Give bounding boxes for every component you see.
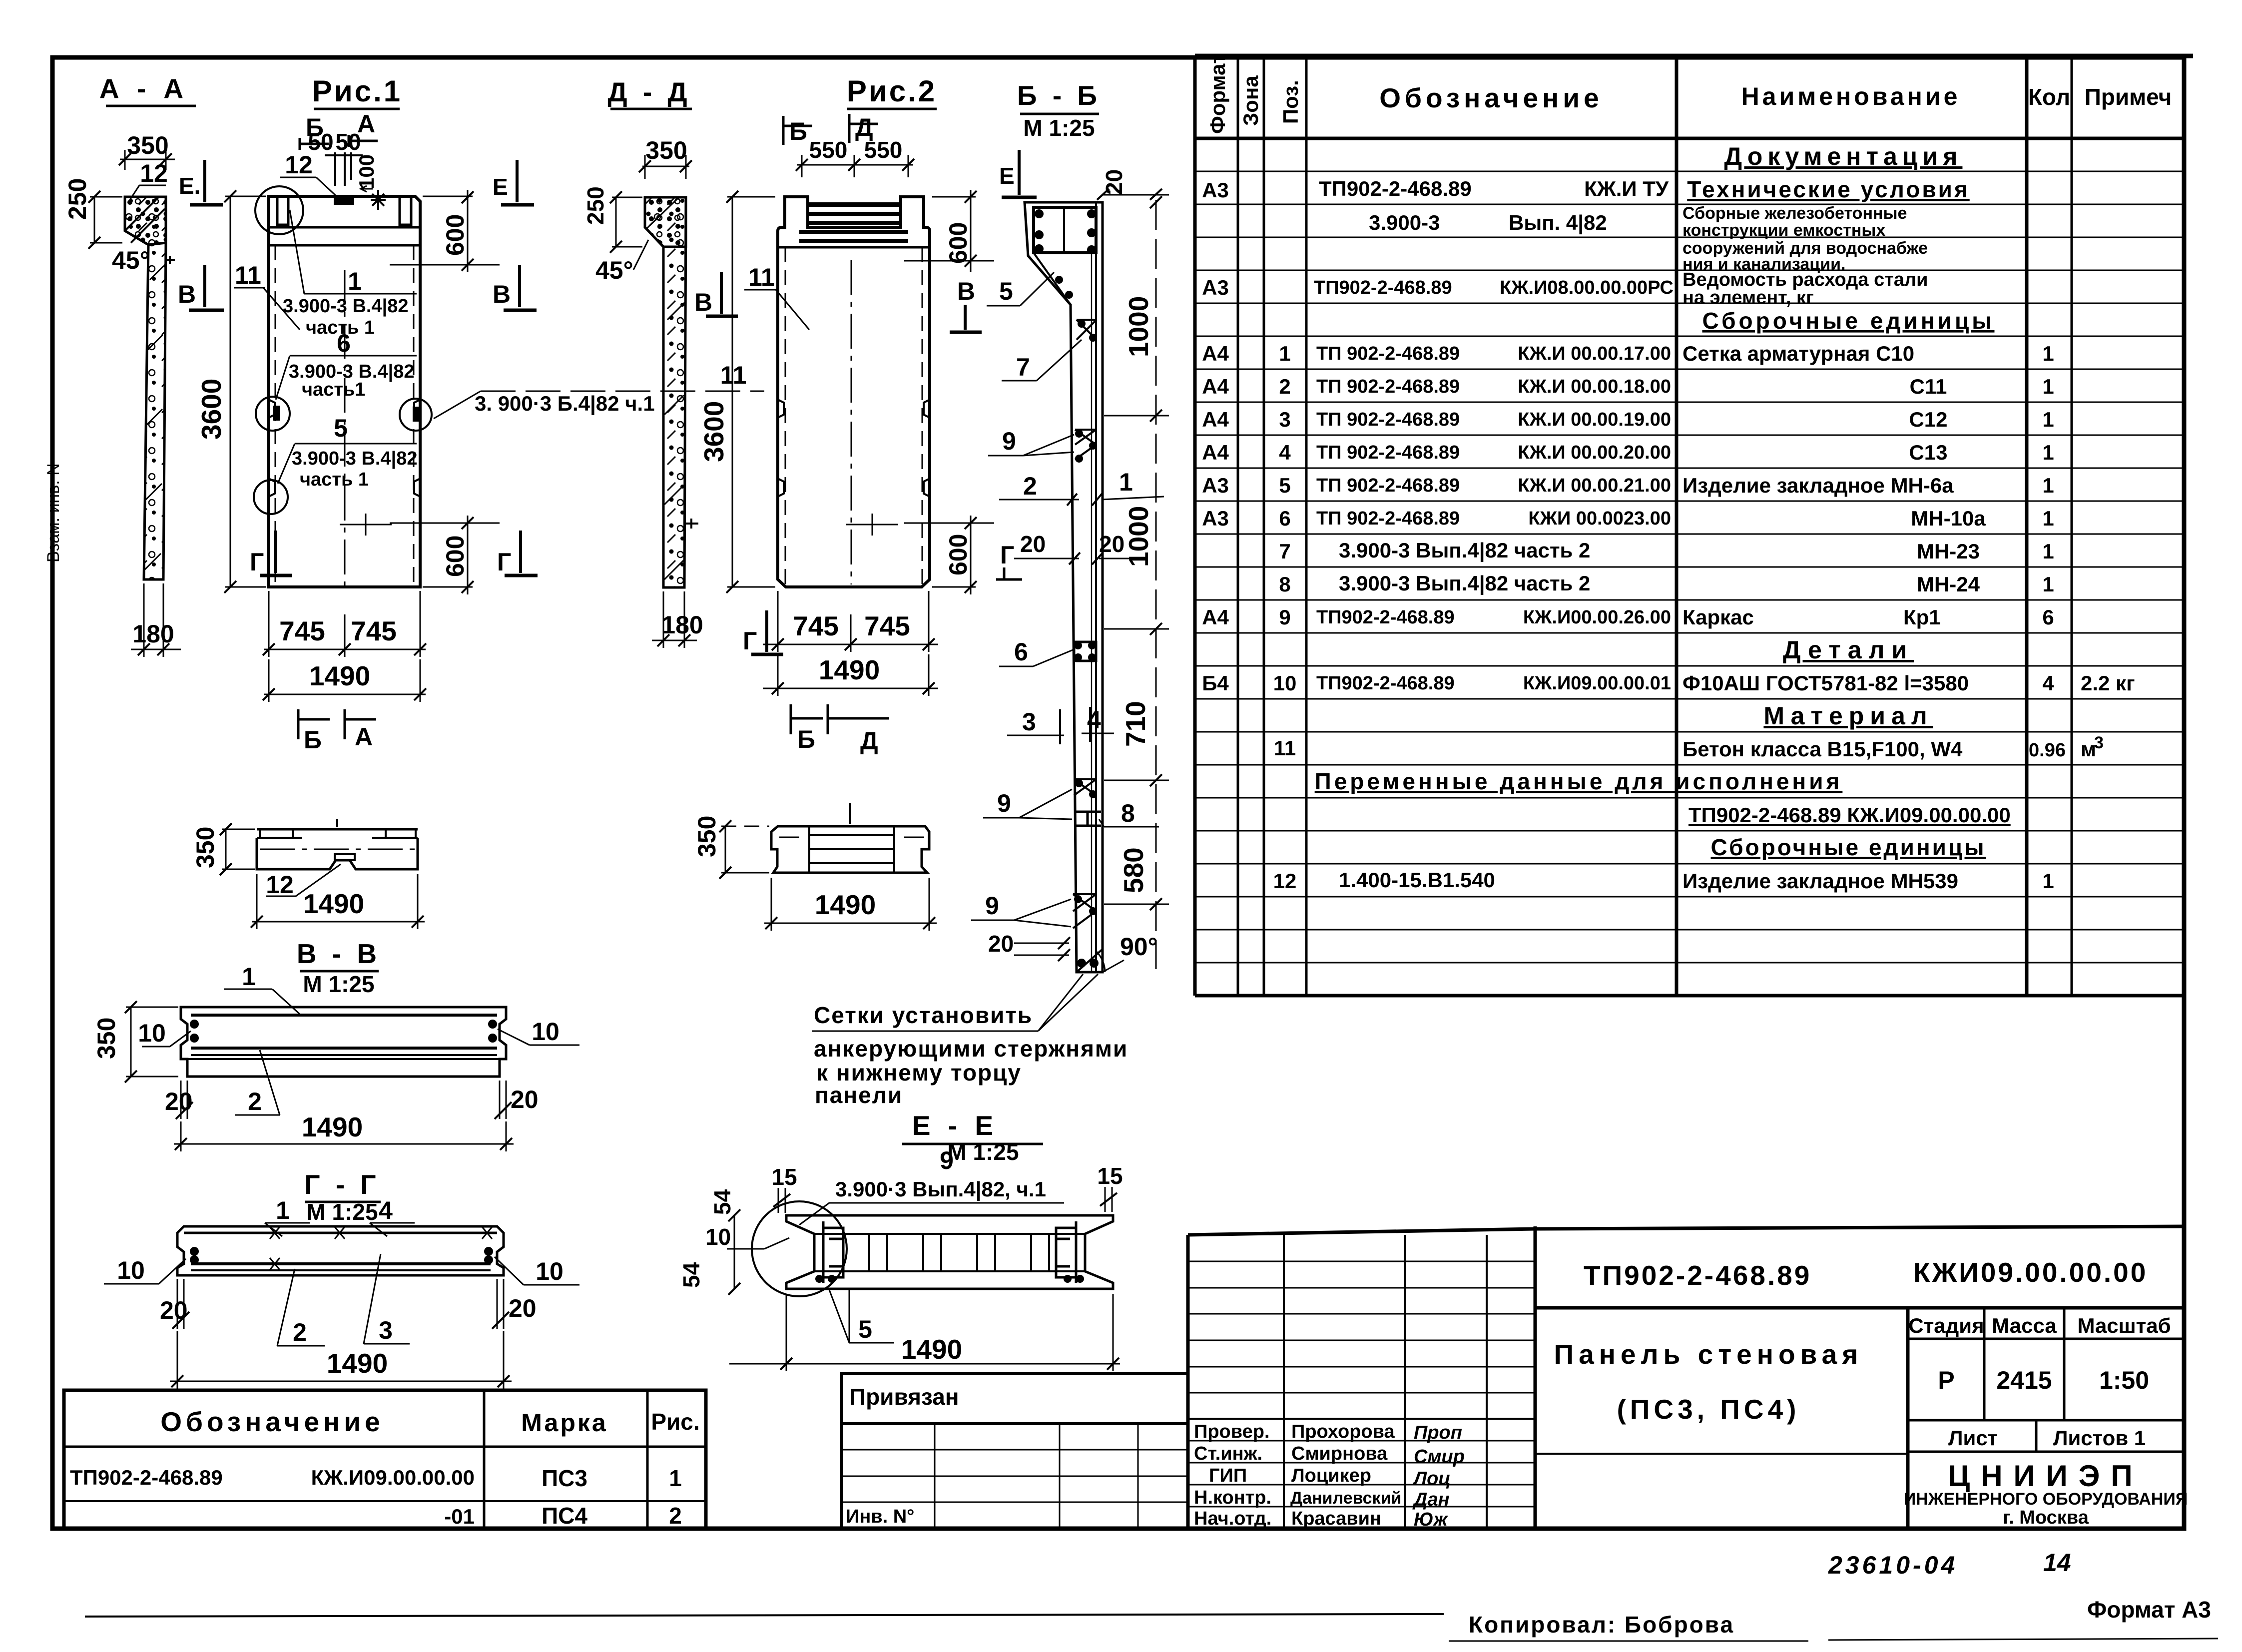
E-E left dims 54/10/54	[678, 1189, 789, 1295]
E-E label 5	[829, 1290, 894, 1343]
svg-text:1: 1	[2042, 572, 2054, 596]
svg-text:Д: Д	[860, 727, 878, 755]
B-B label 5	[987, 272, 1054, 306]
svg-text:1490: 1490	[309, 660, 370, 691]
svg-text:(ПС3, ПС4): (ПС3, ПС4)	[1617, 1394, 1800, 1425]
svg-text:М 1:25: М 1:25	[306, 1199, 378, 1225]
svg-text:3.900-3 В.4|82: 3.900-3 В.4|82	[283, 296, 408, 317]
section marker G (right of fig.1)	[497, 531, 538, 576]
section marker G (left of fig.2 bottom)	[743, 610, 783, 655]
fig.1 panel outline	[269, 190, 420, 587]
svg-text:КЖИ09.00.00.00: КЖИ09.00.00.00	[1913, 1257, 2148, 1288]
svg-text:1: 1	[348, 267, 362, 295]
B-B labels 3 and 4	[1007, 706, 1114, 744]
svg-text:Проп: Проп	[1414, 1422, 1462, 1443]
svg-text:600: 600	[944, 222, 972, 264]
svg-text:6: 6	[337, 329, 351, 357]
svg-text:Переменные данные для исполнен: Переменные данные для исполнения	[1315, 768, 1843, 794]
svg-text:8: 8	[1121, 799, 1135, 827]
svg-text:часть 1: часть 1	[300, 469, 369, 490]
fig.2 title	[847, 74, 937, 109]
embed 6	[1074, 642, 1096, 661]
svg-text:ТП 902-2-468.89: ТП 902-2-468.89	[1316, 508, 1460, 529]
svg-text:1490: 1490	[901, 1334, 962, 1365]
svg-text:250: 250	[582, 186, 608, 225]
svg-text:2: 2	[293, 1318, 307, 1346]
svg-text:ТП902-2-468.89: ТП902-2-468.89	[1316, 607, 1455, 628]
D-D dim 350	[639, 136, 692, 179]
rebar cluster group 9a	[1075, 430, 1096, 460]
svg-text:580: 580	[1118, 847, 1149, 893]
section marker G (left)	[250, 531, 292, 576]
svg-text:ТП 902-2-468.89: ТП 902-2-468.89	[1316, 442, 1460, 463]
svg-text:Лист: Лист	[1948, 1426, 1998, 1450]
rebar cluster group 7	[1077, 320, 1097, 340]
svg-text:3. 900·3 Б.4|82 ч.1: 3. 900·3 Б.4|82 ч.1	[475, 392, 655, 416]
svg-text:20: 20	[1020, 531, 1046, 557]
svg-text:Обозначение: Обозначение	[1379, 82, 1603, 113]
note text under B-B	[812, 974, 1128, 1108]
fig.1 detail circles	[254, 186, 432, 514]
plan1 label 12	[266, 864, 341, 899]
fig.1 inner dashed lines	[275, 245, 414, 587]
svg-text:ТП 902-2-468.89: ТП 902-2-468.89	[1316, 475, 1460, 496]
svg-text:10: 10	[532, 1018, 560, 1046]
svg-text:МН-10а: МН-10а	[1911, 507, 1986, 530]
fig.2 centerline tick	[846, 514, 898, 536]
svg-text:350: 350	[92, 1018, 120, 1059]
D-D wall cut body	[645, 197, 686, 587]
svg-text:Сборочные единицы: Сборочные единицы	[1702, 308, 1995, 334]
svg-text:3600: 3600	[196, 379, 227, 440]
svg-text:1490: 1490	[303, 888, 364, 919]
svg-text:Провер.: Провер.	[1194, 1421, 1270, 1442]
fig.2 top markers B and D	[783, 113, 878, 145]
svg-text:9: 9	[1002, 427, 1016, 455]
svg-text:ГИП: ГИП	[1209, 1465, 1247, 1486]
svg-text:Данилевский: Данилевский	[1290, 1489, 1401, 1508]
svg-text:9: 9	[940, 1146, 954, 1174]
svg-text:Нач.отд.: Нач.отд.	[1194, 1508, 1271, 1529]
svg-text:3.900·3 Вып.4|82, ч.1: 3.900·3 Вып.4|82, ч.1	[835, 1177, 1046, 1201]
B-B labels 2 and 1	[999, 468, 1164, 506]
svg-text:745: 745	[793, 610, 839, 641]
svg-text:Г - Г: Г - Г	[304, 1169, 380, 1200]
svg-text:ТП 902-2-468.89: ТП 902-2-468.89	[1316, 376, 1460, 397]
svg-text:Е: Е	[493, 174, 508, 200]
svg-text:А4: А4	[1202, 342, 1229, 365]
bottom scan line	[85, 1614, 1444, 1617]
svg-text:ТП902-2-468.89: ТП902-2-468.89	[1316, 673, 1455, 694]
big specification table grid	[1195, 56, 2193, 996]
fig.1 dim 3600 (left)	[196, 190, 266, 593]
svg-text:600: 600	[441, 214, 469, 256]
svg-text:9: 9	[985, 892, 999, 920]
E-E dim 1490	[729, 1294, 1120, 1371]
svg-text:В: В	[493, 280, 511, 308]
svg-text:12: 12	[140, 159, 168, 187]
svg-text:-01: -01	[444, 1505, 475, 1528]
G-G dims 20	[160, 1279, 537, 1329]
B-B dim 20 top right	[1097, 169, 1169, 200]
fig.2 dim 600 bottom right	[904, 516, 994, 594]
svg-text:М 1:25: М 1:25	[947, 1139, 1019, 1165]
svg-text:1: 1	[669, 1465, 682, 1491]
fig.1 centerline tick	[340, 514, 392, 536]
svg-text:Взам. инв. N: Взам. инв. N	[44, 463, 63, 562]
svg-text:Вып. 4|82: Вып. 4|82	[1509, 211, 1607, 235]
svg-text:12: 12	[1273, 869, 1297, 893]
svg-text:Детали: Детали	[1783, 636, 1914, 664]
B-B label 6	[999, 638, 1074, 666]
svg-text:Дан: Дан	[1412, 1489, 1450, 1510]
plan2 dim 1490	[764, 878, 937, 931]
fig.1 dim 50 50 at top	[308, 129, 378, 192]
svg-text:Сетки установить: Сетки установить	[814, 1002, 1033, 1028]
svg-text:2415: 2415	[1996, 1366, 2052, 1394]
G-G dim 1490	[170, 1331, 512, 1389]
fig.2 dim 550 550	[796, 137, 914, 177]
svg-text:Е - Е: Е - Е	[912, 1110, 998, 1141]
svg-text:350: 350	[693, 816, 721, 857]
svg-text:КЖ.И09.00.00.00: КЖ.И09.00.00.00	[311, 1466, 475, 1489]
svg-text:С12: С12	[1909, 408, 1947, 431]
svg-text:ТП902-2-468.89: ТП902-2-468.89	[1584, 1260, 1811, 1291]
svg-text:11: 11	[720, 361, 747, 389]
svg-text:Сборные железобетонные: Сборные железобетонные	[1682, 204, 1907, 223]
svg-text:Г: Г	[743, 627, 757, 655]
svg-text:А - А: А - А	[99, 73, 188, 104]
svg-text:Лоц: Лоц	[1412, 1468, 1451, 1489]
svg-text:4: 4	[2042, 671, 2054, 695]
fig.1 bottom section markers B and A	[298, 709, 376, 754]
svg-text:А: А	[355, 723, 373, 751]
svg-text:1: 1	[2042, 474, 2054, 497]
B-B 90 deg note	[1096, 933, 1158, 972]
V-V labels 10 left/right	[138, 1018, 579, 1047]
section A-A title	[99, 73, 196, 106]
svg-text:А3: А3	[1202, 474, 1229, 497]
B-B right dimension chain	[1104, 196, 1169, 969]
svg-text:11: 11	[235, 261, 261, 289]
cluster 9b	[1074, 779, 1096, 795]
fig.2 bottom markers B and D	[791, 704, 889, 755]
svg-text:А3: А3	[1202, 276, 1229, 299]
svg-text:4: 4	[1279, 441, 1291, 464]
svg-text:1: 1	[2042, 869, 2054, 893]
bottom dots	[1077, 959, 1086, 968]
svg-text:Стадия: Стадия	[1908, 1314, 1984, 1337]
svg-text:745: 745	[864, 610, 910, 641]
svg-text:ПС4: ПС4	[542, 1503, 587, 1529]
svg-text:8: 8	[1279, 572, 1290, 596]
fig.1 dim 600 bottom right	[390, 516, 500, 594]
svg-text:1: 1	[1279, 342, 1290, 365]
svg-text:Рис.: Рис.	[651, 1409, 699, 1435]
svg-text:15: 15	[771, 1164, 797, 1190]
svg-text:Лоцикер: Лоцикер	[1291, 1465, 1371, 1486]
svg-text:Листов 1: Листов 1	[2053, 1426, 2146, 1450]
D-D dim 250	[582, 186, 642, 253]
marker E (B-B top)	[999, 150, 1037, 197]
svg-text:3: 3	[379, 1316, 393, 1344]
svg-text:11: 11	[748, 263, 775, 291]
G-G slab body	[177, 1226, 504, 1275]
svg-text:45°: 45°	[112, 246, 150, 274]
svg-text:20: 20	[511, 1086, 539, 1113]
fig.1 label 1 block	[283, 210, 417, 338]
svg-text:КЖ.И08.00.00.00РС: КЖ.И08.00.00.00РС	[1500, 277, 1674, 298]
svg-text:20: 20	[509, 1294, 537, 1322]
embed 8	[1074, 812, 1101, 826]
svg-text:54: 54	[709, 1189, 735, 1215]
svg-text:6: 6	[2042, 605, 2054, 629]
V-V slab body	[181, 1007, 506, 1077]
big table header text	[1206, 53, 2172, 134]
svg-text:745: 745	[279, 615, 325, 646]
svg-text:45°: 45°	[595, 256, 633, 284]
svg-text:Сетка арматурная С10: Сетка арматурная С10	[1682, 342, 1914, 365]
svg-text:9: 9	[1279, 605, 1290, 629]
svg-text:2: 2	[1023, 472, 1037, 500]
svg-text:Формат: Формат	[1206, 53, 1229, 134]
svg-text:1: 1	[2042, 408, 2054, 431]
svg-text:9: 9	[997, 789, 1011, 817]
svg-text:23610-04: 23610-04	[1828, 1551, 1958, 1579]
svg-text:Технические условия: Технические условия	[1687, 176, 1970, 202]
svg-text:20: 20	[165, 1088, 193, 1115]
fig.2 dim 600 top right	[904, 190, 994, 272]
A-A dim 180 (bottom)	[131, 583, 181, 657]
svg-text:10: 10	[1273, 671, 1297, 695]
svg-text:В - В: В - В	[297, 938, 381, 969]
svg-text:Бетон класса В15,F100, W4: Бетон класса В15,F100, W4	[1682, 737, 1963, 761]
svg-text:ЦНИИЭП: ЦНИИЭП	[1948, 1459, 2143, 1493]
B-B label 9a	[988, 427, 1074, 456]
V-V label 1	[224, 963, 300, 1014]
svg-text:А4: А4	[1202, 375, 1229, 398]
svg-text:Примеч: Примеч	[2085, 84, 2172, 110]
svg-text:А4: А4	[1202, 441, 1229, 464]
svg-text:1:50: 1:50	[2099, 1366, 2149, 1394]
svg-text:А3: А3	[1202, 178, 1229, 202]
svg-text:600: 600	[441, 536, 469, 577]
svg-text:550: 550	[864, 137, 903, 163]
svg-text:В: В	[178, 280, 196, 308]
fig.2 inner dashed lines	[785, 247, 922, 584]
svg-text:Е.: Е.	[179, 173, 200, 199]
svg-text:710: 710	[1120, 701, 1151, 747]
plan view 2 (below fig.2)	[771, 803, 929, 873]
svg-text:6: 6	[1014, 638, 1028, 666]
svg-text:7: 7	[1279, 540, 1290, 563]
B-B label 8	[1099, 799, 1159, 827]
svg-text:Б: Б	[797, 725, 815, 753]
fig.1 label 5 block	[278, 414, 417, 490]
svg-text:1: 1	[2042, 540, 2054, 563]
section D-D title	[607, 76, 692, 109]
svg-text:1490: 1490	[302, 1111, 363, 1142]
fig.1 label 11	[234, 261, 300, 330]
svg-text:Б: Б	[304, 726, 322, 754]
svg-text:Формат А3: Формат А3	[2087, 1597, 2211, 1623]
svg-text:Копировал: Боброва: Копировал: Боброва	[1469, 1612, 1734, 1638]
A-A dim 250 (left)	[63, 178, 122, 249]
B-B dim 20 bottom	[988, 931, 1070, 961]
section B-B title	[1017, 80, 1101, 141]
fig.1 label 12 with leader	[280, 151, 338, 198]
svg-text:2: 2	[669, 1503, 682, 1529]
svg-text:Марка: Марка	[521, 1409, 607, 1437]
svg-text:С13: С13	[1909, 441, 1947, 464]
fig.1 top section markers B and A	[300, 110, 378, 150]
svg-text:КЖ.И 00.00.17.00: КЖ.И 00.00.17.00	[1518, 343, 1671, 364]
svg-text:Зона: Зона	[1239, 75, 1262, 126]
svg-text:КЖ.И00.00.26.00: КЖ.И00.00.26.00	[1523, 607, 1671, 628]
fig.1 dim 745/745	[263, 591, 426, 657]
svg-text:Смир: Смир	[1414, 1446, 1465, 1467]
fig.2 dim 1490	[763, 654, 938, 696]
svg-text:А4: А4	[1202, 408, 1229, 431]
svg-text:Б: Б	[789, 117, 807, 145]
plan1 dim 350	[191, 823, 255, 875]
A-A label 12	[130, 159, 168, 200]
G-G labels 10	[104, 1256, 579, 1285]
svg-text:1.400-15.В1.540: 1.400-15.В1.540	[1339, 868, 1495, 892]
section marker B (right of fig.2)	[950, 277, 982, 332]
privyazan block	[841, 1373, 1188, 1529]
svg-text:5: 5	[334, 414, 348, 442]
svg-text:3: 3	[1022, 708, 1036, 736]
label 11 with text 3.900-3 B.4|82 ch.1 (points to fig.1 right circle)	[434, 361, 764, 419]
svg-text:Сборочные единицы: Сборочные единицы	[1711, 834, 1986, 860]
svg-text:Панель стеновая: Панель стеновая	[1554, 1339, 1863, 1370]
svg-text:Обозначение: Обозначение	[160, 1406, 384, 1437]
svg-text:350: 350	[645, 136, 687, 164]
svg-text:Документация: Документация	[1724, 142, 1963, 170]
svg-text:М 1:25: М 1:25	[303, 971, 374, 997]
svg-text:Материал: Материал	[1763, 702, 1933, 730]
svg-text:анкерующими стержнями: анкерующими стержнями	[814, 1036, 1128, 1062]
B-B label 9b	[983, 789, 1072, 819]
D-D pointer tick right	[684, 519, 698, 529]
section E-E title	[902, 1110, 1043, 1174]
svg-text:10: 10	[138, 1019, 166, 1047]
svg-text:350: 350	[127, 131, 168, 159]
section marker B (left)	[178, 265, 224, 310]
svg-text:Рис.1: Рис.1	[312, 74, 402, 108]
plan1 dim 1490	[251, 874, 425, 929]
svg-text:Поз.: Поз.	[1279, 80, 1302, 124]
stage/mass/scale	[1906, 1308, 1910, 1529]
svg-text:1000: 1000	[1123, 296, 1154, 357]
svg-text:Масштаб: Масштаб	[2077, 1314, 2171, 1337]
svg-text:Г: Г	[250, 548, 264, 576]
svg-text:1490: 1490	[327, 1348, 388, 1379]
section G-G title	[304, 1169, 381, 1225]
detail circle at left end	[752, 1201, 847, 1296]
svg-text:1490: 1490	[815, 889, 876, 920]
D-D dim 180	[652, 591, 703, 648]
svg-text:ТП 902-2-468.89: ТП 902-2-468.89	[1316, 409, 1460, 430]
svg-text:МН-23: МН-23	[1917, 540, 1980, 563]
svg-text:Р: Р	[1938, 1366, 1954, 1394]
svg-text:15: 15	[1097, 1163, 1122, 1189]
fig.2 side notches	[778, 400, 930, 497]
svg-text:С11: С11	[1910, 375, 1947, 398]
svg-text:600: 600	[944, 534, 972, 575]
svg-text:КЖ.И 00.00.18.00: КЖ.И 00.00.18.00	[1518, 376, 1671, 397]
svg-text:14: 14	[2043, 1549, 2071, 1577]
svg-text:ПС3: ПС3	[542, 1465, 587, 1491]
section V-V title	[297, 938, 381, 997]
svg-text:745: 745	[351, 615, 397, 646]
svg-text:7: 7	[1016, 353, 1030, 381]
svg-text:ТП902-2-468.89 КЖ.И09.00.00: ТП902-2-468.89 КЖ.И09.00.00.00	[1688, 803, 2011, 827]
svg-text:2: 2	[248, 1088, 262, 1115]
svg-text:3.900-3 В.4|82: 3.900-3 В.4|82	[292, 448, 417, 469]
section marker E (left of fig.1)	[179, 160, 223, 205]
svg-text:Смирнова: Смирнова	[1291, 1443, 1388, 1464]
svg-text:0.96: 0.96	[2029, 740, 2066, 761]
svg-text:Красавин: Красавин	[1291, 1508, 1381, 1529]
svg-text:1: 1	[276, 1196, 290, 1224]
svg-text:3.900-3 Вып.4|82 часть 2: 3.900-3 Вып.4|82 часть 2	[1339, 539, 1590, 562]
svg-text:часть1: часть1	[302, 379, 365, 400]
title block	[1188, 1226, 2188, 1530]
svg-text:20: 20	[988, 931, 1014, 957]
svg-text:Изделие закладное МН-6а: Изделие закладное МН-6а	[1682, 474, 1954, 497]
svg-text:2.2 кг: 2.2 кг	[2081, 671, 2135, 695]
svg-text:1490: 1490	[819, 654, 880, 685]
svg-text:панели: панели	[815, 1082, 903, 1108]
svg-text:Прохорова: Прохорова	[1291, 1421, 1395, 1442]
G-G labels 1 and 4 top	[265, 1196, 415, 1236]
fig.2 panel outline	[778, 197, 930, 587]
svg-text:54: 54	[678, 1262, 704, 1288]
svg-text:ТП902-2-468.89: ТП902-2-468.89	[1314, 277, 1452, 298]
svg-text:Наименование: Наименование	[1741, 82, 1961, 110]
svg-text:1: 1	[2042, 441, 2054, 464]
svg-text:КЖ.И 00.00.20.00: КЖ.И 00.00.20.00	[1518, 442, 1671, 463]
svg-text:В: В	[957, 277, 975, 305]
svg-text:ИНЖЕНЕРНОГО ОБОРУДОВАНИЯ: ИНЖЕНЕРНОГО ОБОРУДОВАНИЯ	[1904, 1490, 2188, 1509]
big table row lines	[1195, 171, 2184, 963]
svg-text:Кр1: Кр1	[1903, 605, 1941, 629]
svg-text:5: 5	[858, 1315, 872, 1343]
fig.2 dim 3600	[698, 191, 775, 593]
V-V dim 350	[92, 1001, 178, 1083]
svg-text:90°: 90°	[1120, 933, 1158, 961]
svg-text:Б - Б: Б - Б	[1017, 80, 1101, 111]
big table content	[1202, 142, 2135, 893]
svg-text:100: 100	[355, 154, 378, 189]
svg-text:5: 5	[1279, 474, 1290, 497]
section marker B (right of fig.1)	[493, 265, 537, 310]
svg-text:В: В	[694, 288, 712, 316]
svg-text:КЖИ 00.0023.00: КЖИ 00.0023.00	[1528, 508, 1671, 529]
fig.2 label 11	[744, 263, 809, 330]
svg-text:10: 10	[117, 1256, 145, 1284]
svg-text:Д - Д: Д - Д	[607, 76, 691, 107]
svg-text:КЖ.И 00.00.21.00: КЖ.И 00.00.21.00	[1518, 475, 1671, 496]
B-B label 7	[1002, 340, 1082, 381]
svg-text:1: 1	[1119, 468, 1133, 496]
svg-text:2: 2	[1279, 375, 1290, 398]
svg-text:6: 6	[1279, 507, 1290, 530]
svg-text:А3: А3	[1202, 507, 1229, 530]
svg-text:Е: Е	[999, 163, 1015, 189]
